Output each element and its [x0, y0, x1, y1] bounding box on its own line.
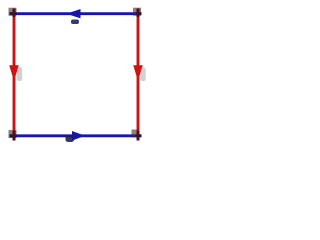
arrowhead right (red, pointing down): [133, 65, 143, 81]
node bottom-left corner (dark): [9, 130, 17, 141]
label right (faint gray right of right arrow): [140, 68, 145, 82]
label left (faint gray right of left arrow): [17, 67, 22, 81]
label bottom (dark smudge left of bottom arrow): [66, 135, 75, 142]
arrowhead top (blue, pointing left): [67, 9, 81, 18]
wire right edge (red): [137, 9, 140, 141]
arrowhead left (red, pointing down): [9, 65, 19, 81]
node bottom-right corner (dark): [132, 130, 142, 141]
label top (dark smudge under top arrow): [71, 20, 79, 25]
arrowhead bottom (blue, pointing right): [72, 131, 85, 141]
wire left edge (red): [13, 9, 16, 141]
node top-right corner (dark): [133, 8, 142, 17]
wire bottom edge (blue): [10, 134, 142, 137]
wire top edge (blue): [10, 12, 142, 15]
node top-left corner (dark): [9, 8, 17, 17]
